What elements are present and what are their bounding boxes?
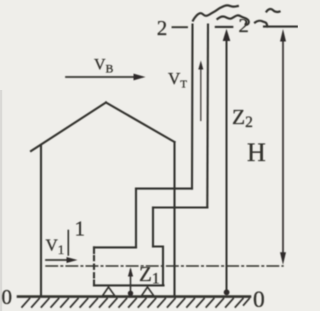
chimney right wall — [206, 25, 209, 208]
house left wall — [40, 146, 42, 296]
support triangle left — [103, 287, 115, 296]
smoke squiggle lower — [218, 15, 249, 24]
furnace right step — [153, 247, 163, 286]
wind arrow VB — [66, 74, 146, 81]
flue gas arrow VT — [198, 61, 203, 121]
smoke squiggle at H bar — [255, 21, 268, 27]
svg-text:2: 2 — [239, 15, 249, 37]
house roof right slope — [106, 103, 175, 143]
support triangle right — [142, 287, 154, 296]
house roof left slope — [31, 103, 106, 152]
svg-text:0: 0 — [2, 285, 13, 309]
furnace left wall solid bottom — [93, 281, 95, 286]
chimney left wall — [191, 25, 194, 189]
furnace left wall solid top — [93, 247, 95, 253]
smoke tilde top right — [267, 9, 280, 12]
dimension Z2 line with top bar — [216, 27, 233, 295]
svg-text:2: 2 — [157, 16, 168, 40]
furnace top wall — [94, 246, 136, 248]
flue duct top wall — [136, 188, 192, 190]
flue riser left wall — [135, 189, 137, 248]
flue duct bottom wall — [153, 206, 207, 208]
ground hatching — [22, 299, 249, 307]
inlet arrow V1 — [46, 257, 78, 263]
scan edge smudge left — [0, 90, 2, 311]
section mark 1 tick — [67, 231, 69, 256]
house right wall — [173, 142, 175, 296]
svg-text:1: 1 — [75, 217, 86, 241]
dimension Z1 arrow — [128, 267, 133, 296]
section mark 2 dash (left) — [173, 26, 188, 28]
smoke squiggle main — [193, 5, 238, 20]
furnace bottom wall — [94, 284, 164, 286]
datum dash-dot line 0-0 level — [46, 265, 283, 267]
flue riser right wall — [152, 208, 154, 247]
svg-text:0: 0 — [253, 287, 265, 311]
dimension H line with top bar — [264, 27, 297, 265]
furnace left wall dashed opening — [93, 256, 95, 280]
ground line — [18, 295, 250, 298]
svg-text:H: H — [247, 138, 266, 167]
